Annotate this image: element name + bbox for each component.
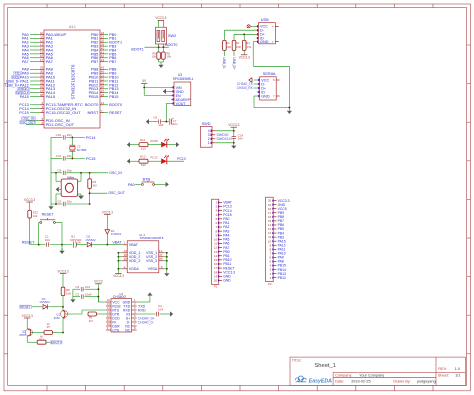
- svg-text:PB1: PB1: [109, 37, 116, 41]
- ground below SW2 resistors: [158, 59, 163, 68]
- svg-text:PA3: PA3: [223, 229, 229, 233]
- svg-text:12: 12: [268, 231, 272, 235]
- svg-text:PC15-OSC32_OUT: PC15-OSC32_OUT: [46, 110, 82, 115]
- svg-text:Y2: Y2: [77, 145, 81, 149]
- crystal Y1 8MHz: [56, 173, 81, 204]
- pin VSSA of U1.2: [148, 265, 168, 271]
- svg-text:Drawn By:: Drawn By:: [393, 379, 411, 383]
- capacitor C7 polarized: [166, 116, 178, 126]
- svg-text:15: 15: [40, 50, 44, 54]
- capacitor C4 at V3: [137, 304, 168, 316]
- svg-text:VSS_2: VSS_2: [146, 255, 157, 259]
- svg-text:C9: C9: [57, 200, 61, 204]
- pin VSS_2 of U1.2: [146, 253, 168, 259]
- svg-text:31: 31: [40, 73, 44, 77]
- svg-text:PB14: PB14: [278, 268, 286, 272]
- svg-text:104: 104: [238, 137, 243, 141]
- svg-text:39: 39: [101, 42, 105, 46]
- svg-text:USB_D+: USB_D+: [232, 57, 236, 70]
- svg-text:C3: C3: [75, 292, 79, 296]
- svg-text:17: 17: [214, 266, 218, 270]
- node Q2 base junction: [62, 332, 64, 334]
- resistor R2 USB D+ series: [232, 34, 257, 70]
- node BOOT1 label: [131, 47, 143, 51]
- svg-text:RXD: RXD: [12, 75, 19, 79]
- capacitor C11: [51, 154, 85, 161]
- svg-text:PD1-OSC_OUT: PD1-OSC_OUT: [46, 122, 75, 127]
- resistor R1 USB D- series: [222, 30, 256, 69]
- svg-text:19: 19: [101, 35, 105, 39]
- pin PC13-TAMPER-RTC of U1.1: [19, 101, 83, 107]
- svg-text:PA7: PA7: [22, 60, 29, 64]
- svg-text:DTR: DTR: [112, 312, 120, 316]
- pin VSS_1 of U1.2: [146, 249, 168, 255]
- svg-text:VBAT: VBAT: [112, 240, 122, 244]
- resistor R4 1.5k pullup: [239, 33, 252, 59]
- svg-text:18: 18: [268, 207, 272, 211]
- svg-text:VSSA: VSSA: [148, 267, 158, 271]
- svg-text:13: 13: [268, 227, 272, 231]
- svg-text:8050: 8050: [54, 316, 61, 320]
- node BOOT0 label: [165, 43, 177, 47]
- svg-text:10k: 10k: [151, 55, 156, 59]
- svg-text:10k: 10k: [33, 214, 38, 218]
- svg-text:PA8: PA8: [278, 260, 284, 264]
- svg-text:1N5822: 1N5822: [85, 238, 96, 242]
- svg-text:15: 15: [214, 258, 218, 262]
- pin BOOT0 of U1.1: [85, 101, 122, 107]
- capacitor C1: [45, 235, 73, 247]
- svg-text:PA6: PA6: [22, 56, 29, 60]
- svg-text:PB12: PB12: [109, 83, 118, 87]
- svg-text:PC13: PC13: [177, 157, 186, 161]
- svg-text:43: 43: [101, 58, 105, 62]
- pin PB1 of U1.1: [91, 35, 117, 41]
- svg-text:20: 20: [268, 199, 272, 203]
- netflag VCC5 at SERIAL VCC pin: [249, 78, 257, 83]
- svg-text:NRST: NRST: [88, 110, 99, 115]
- connector P1 20pin header: [212, 199, 236, 288]
- svg-text:48: 48: [124, 253, 128, 257]
- pin PB10 of U1.1: [89, 73, 119, 79]
- svg-text:BOOT0: BOOT0: [51, 340, 62, 344]
- svg-text:1: 1: [208, 141, 210, 145]
- svg-text:VCC3.3: VCC3.3: [223, 270, 235, 274]
- capacitor C14: [232, 131, 244, 143]
- svg-text:PC15: PC15: [19, 111, 29, 115]
- op-amp U2 CH340G: [106, 292, 137, 332]
- op-amp U1 power part U1.2: [127, 233, 164, 273]
- svg-text:PA5: PA5: [22, 52, 29, 56]
- svg-text:PB0: PB0: [109, 33, 116, 37]
- svg-text:12: 12: [214, 246, 218, 250]
- pin PB13 of U1.1: [89, 85, 119, 91]
- svg-text:PA1: PA1: [22, 37, 29, 41]
- pin VDDA of U1.2: [117, 265, 139, 271]
- resistor R6: [151, 47, 160, 59]
- LED D5: [161, 139, 169, 148]
- svg-text:22: 22: [101, 77, 105, 81]
- svg-text:45: 45: [101, 66, 105, 70]
- svg-text:RESET: RESET: [22, 241, 35, 245]
- wire right of LED D6 with net PC13: [167, 157, 186, 161]
- svg-text:VCC: VCC: [260, 25, 268, 29]
- svg-text:D+: D+: [261, 86, 267, 90]
- pin PB12 of U1.1: [89, 81, 119, 87]
- svg-text:13: 13: [214, 250, 218, 254]
- svg-text:4: 4: [208, 129, 210, 133]
- svg-text:PC15: PC15: [223, 213, 232, 217]
- svg-text:PB10: PB10: [109, 75, 118, 79]
- pin PD1-OSC_OUT of U1.1: [20, 120, 75, 127]
- svg-text:VCC: VCC: [112, 300, 120, 304]
- svg-text:15: 15: [268, 219, 272, 223]
- LED D6: [161, 155, 169, 164]
- capacitor C8: [51, 168, 108, 175]
- resistor R22: [28, 204, 39, 244]
- push button RESET: [38, 213, 63, 246]
- svg-text:PB9: PB9: [278, 211, 285, 215]
- svg-text:18: 18: [214, 270, 218, 274]
- pin VDD_3 of U1.2: [117, 257, 140, 263]
- pin VDD_1 of U1.2: [117, 249, 140, 255]
- svg-text:DSR: DSR: [112, 324, 120, 328]
- net label PC15 at C11: [86, 157, 96, 161]
- ground flag left of R12: [127, 159, 133, 164]
- svg-text:17: 17: [40, 58, 44, 62]
- net label SWDIO: [216, 133, 228, 137]
- pin PA14 of U1.1: [16, 89, 56, 95]
- svg-text:26: 26: [101, 85, 105, 89]
- svg-text:R232: R232: [112, 304, 120, 308]
- resistor R13: [37, 335, 50, 345]
- svg-text:PA11: PA11: [20, 79, 29, 83]
- svg-text:PA6: PA6: [223, 242, 229, 246]
- net label CH340_D-: [138, 320, 154, 324]
- push button BTN: [135, 178, 163, 186]
- resistor R8: [162, 47, 172, 59]
- wire Q2 collector to R13: [27, 336, 37, 342]
- svg-text:GND: GND: [123, 300, 131, 304]
- svg-text:104: 104: [45, 238, 50, 242]
- pin PA10 of U1.1: [12, 73, 56, 79]
- svg-text:PB13: PB13: [109, 87, 118, 91]
- svg-text:11: 11: [107, 318, 110, 322]
- svg-text:20p: 20p: [67, 133, 72, 137]
- svg-text:ADJ/BYP: ADJ/BYP: [176, 98, 192, 102]
- svg-text:SWDIO: SWDIO: [216, 133, 228, 137]
- svg-text:GND: GND: [260, 40, 269, 44]
- wire ground rail for crystal caps: [50, 137, 52, 203]
- pin PB5 of U1.1: [91, 50, 117, 56]
- svg-text:C11: C11: [56, 154, 62, 158]
- capacitor C3: [73, 292, 99, 298]
- pin PC14-OSC32_IN of U1.1: [19, 105, 76, 111]
- power flag VCC3.3 above D1: [102, 210, 113, 229]
- svg-text:PB4: PB4: [109, 48, 116, 52]
- pin PA5 of U1.1: [22, 50, 54, 56]
- svg-text:2A: 2A: [77, 241, 81, 245]
- pin VBAT of U1.2: [122, 241, 138, 247]
- svg-text:VIN: VIN: [176, 86, 182, 90]
- svg-text:SPX3819M5-L: SPX3819M5-L: [173, 77, 194, 81]
- svg-text:SWD: SWD: [202, 122, 211, 126]
- svg-text:RI: RI: [112, 320, 115, 324]
- svg-text:VDD_1: VDD_1: [129, 251, 141, 255]
- svg-text:PB4: PB4: [278, 231, 285, 235]
- svg-text:D+: D+: [126, 316, 130, 320]
- svg-text:16: 16: [268, 215, 272, 219]
- net label RXD: [138, 308, 146, 312]
- pin PB3 of U1.1: [91, 42, 117, 48]
- svg-text:BOOT0: BOOT0: [85, 102, 99, 107]
- svg-text:RTS: RTS: [112, 308, 119, 312]
- svg-text:PA10: PA10: [20, 75, 29, 79]
- pin PA2 of U1.1: [22, 39, 54, 45]
- svg-text:VCC3.3: VCC3.3: [57, 269, 68, 273]
- power flag VCC3.3 above Q2: [22, 314, 33, 329]
- svg-text:PC14: PC14: [19, 107, 29, 111]
- svg-text:2019-02-25: 2019-02-25: [351, 379, 370, 383]
- svg-text:PA15: PA15: [20, 95, 29, 99]
- resistor R3 1M: [88, 173, 97, 204]
- net label PC13 wire: [148, 156, 161, 162]
- svg-text:PC14: PC14: [223, 209, 232, 213]
- svg-text:47: 47: [159, 253, 163, 257]
- svg-text:41: 41: [101, 50, 105, 54]
- svg-text:CH340_TX: CH340_TX: [237, 82, 254, 86]
- diode D2 1N5822: [85, 235, 108, 248]
- transistor Q2 8550: [19, 328, 44, 337]
- svg-text:STM32F103C8T6: STM32F103C8T6: [140, 236, 164, 240]
- svg-text:Date:: Date:: [335, 379, 344, 383]
- svg-text:VDD_3: VDD_3: [129, 259, 141, 263]
- svg-text:C8: C8: [57, 168, 61, 172]
- svg-text:104: 104: [85, 285, 90, 289]
- svg-text:16: 16: [40, 54, 44, 58]
- svg-text:C6: C6: [153, 115, 157, 119]
- pin PB4 of U1.1: [91, 46, 117, 52]
- svg-text:VCC3.3: VCC3.3: [102, 210, 113, 214]
- svg-text:Company:: Company:: [335, 373, 352, 377]
- svg-text:12: 12: [40, 39, 44, 43]
- diode D3 1N5822: [32, 297, 64, 309]
- svg-text:OSC_IN: OSC_IN: [109, 171, 122, 175]
- svg-text:RESET: RESET: [109, 111, 122, 115]
- svg-text:VDD_2: VDD_2: [129, 255, 141, 259]
- svg-text:GND: GND: [176, 90, 184, 94]
- net label SWDCLK: [216, 137, 232, 141]
- svg-text:11: 11: [268, 235, 271, 239]
- svg-text:RESET: RESET: [223, 266, 234, 270]
- svg-text:DCD: DCD: [112, 316, 120, 320]
- pin PD0-OSC_IN of U1.1: [22, 116, 70, 123]
- svg-text:36: 36: [124, 257, 128, 261]
- transistor Q1 8050: [54, 307, 68, 333]
- svg-text:10: 10: [107, 322, 111, 326]
- resistor R5 on DTR: [88, 312, 106, 323]
- svg-text:PA3: PA3: [22, 44, 29, 48]
- svg-text:PC13: PC13: [19, 103, 29, 107]
- svg-text:USB_D-: USB_D-: [6, 79, 20, 83]
- svg-text:10: 10: [268, 239, 272, 243]
- svg-text:EN: EN: [176, 94, 181, 98]
- svg-text:510: 510: [141, 163, 146, 167]
- wire U3 VOUT down: [166, 103, 171, 121]
- svg-text:10: 10: [40, 31, 44, 35]
- resistor R7 1k: [44, 322, 63, 335]
- svg-text:P2: P2: [268, 282, 272, 286]
- net label PA0 at BTN: [128, 183, 135, 187]
- svg-text:104: 104: [158, 307, 163, 311]
- svg-text:PB15: PB15: [89, 94, 100, 99]
- pin PA0-WKUP of U1.1: [22, 31, 67, 37]
- pin PB9 of U1.1: [91, 70, 117, 76]
- capacitor C6: [151, 115, 167, 127]
- svg-text:510: 510: [141, 147, 146, 151]
- svg-text:GND: GND: [278, 203, 286, 207]
- svg-text:PA1: PA1: [223, 221, 229, 225]
- pin PA7 of U1.1: [22, 58, 54, 64]
- svg-text:C2: C2: [75, 285, 79, 289]
- svg-text:VCC3.3: VCC3.3: [228, 123, 239, 127]
- svg-text:11: 11: [40, 35, 43, 39]
- net label RESET at D3: [20, 305, 32, 309]
- svg-text:PB8: PB8: [109, 68, 116, 72]
- svg-text:NC: NC: [125, 328, 130, 332]
- pin PA6 of U1.1: [22, 54, 54, 60]
- svg-text:14: 14: [214, 254, 218, 258]
- svg-text:2: 2: [208, 137, 210, 141]
- power flag VCC3.3 above SW2: [155, 16, 166, 27]
- svg-text:VCC3.3: VCC3.3: [155, 16, 166, 20]
- svg-text:U3: U3: [178, 73, 182, 77]
- pin PA13 of U1.1: [18, 85, 56, 91]
- svg-text:1N5822: 1N5822: [39, 300, 50, 304]
- net label OSC_IN: [109, 171, 122, 175]
- svg-text:12: 12: [159, 249, 163, 253]
- ground right of C4: [168, 311, 174, 316]
- svg-text:10k: 10k: [66, 291, 71, 295]
- svg-text:42: 42: [101, 54, 105, 58]
- svg-text:PA15: PA15: [46, 94, 56, 99]
- svg-text:TITLE:: TITLE:: [292, 358, 302, 362]
- svg-text:PB8: PB8: [278, 215, 285, 219]
- wire RESET row: [30, 244, 46, 246]
- svg-text:8550: 8550: [19, 333, 26, 337]
- wire VBAT net: [107, 240, 122, 244]
- svg-text:14: 14: [107, 306, 111, 310]
- wire OSC_OUT: [90, 191, 125, 195]
- svg-text:PA4: PA4: [223, 233, 229, 237]
- pin PA15 of U1.1: [20, 93, 56, 99]
- wire VDD rail to VCC3.3: [113, 253, 124, 278]
- svg-text:OSC_OUT: OSC_OUT: [108, 191, 124, 195]
- svg-text:BOOT0: BOOT0: [165, 43, 177, 47]
- ground below SWD: [231, 143, 236, 149]
- svg-text:TXD: TXD: [14, 71, 21, 75]
- svg-text:PB7: PB7: [91, 59, 99, 64]
- pin PB2 of U1.1: [91, 39, 122, 45]
- connector P2 20pin header: [266, 197, 290, 286]
- svg-text:PA0: PA0: [128, 183, 135, 187]
- capacitor C10: [51, 133, 85, 140]
- svg-text:15: 15: [107, 302, 111, 306]
- svg-text:PA2: PA2: [223, 225, 229, 229]
- ground at U3 GND pin: [163, 89, 171, 94]
- svg-text:PB15: PB15: [109, 95, 118, 99]
- wire U2 GND up to ground: [137, 292, 153, 302]
- svg-text:104: 104: [158, 123, 163, 127]
- power flag 5V at U3 VIN: [141, 79, 147, 87]
- svg-text:BOOT1: BOOT1: [131, 47, 143, 51]
- EasyEDA logo: [295, 376, 332, 385]
- svg-text:37: 37: [40, 89, 44, 93]
- svg-text:PC15: PC15: [86, 157, 96, 161]
- ground right of LED D5: [167, 142, 179, 147]
- resistor R11: [132, 138, 148, 151]
- svg-text:PB0: PB0: [223, 250, 230, 254]
- svg-text:VSS_1: VSS_1: [146, 251, 157, 255]
- svg-text:RESET: RESET: [20, 305, 31, 309]
- svg-text:RESET: RESET: [42, 213, 55, 217]
- resistor R9 10k: [61, 287, 71, 307]
- svg-text:13: 13: [40, 42, 44, 46]
- pin VSS_3 of U1.2: [146, 257, 168, 263]
- net label PC14 at C10: [86, 136, 96, 140]
- svg-text:CTS: CTS: [112, 328, 120, 332]
- svg-text:USB: USB: [261, 18, 269, 22]
- power flag VCC3.3 above R22: [24, 198, 35, 205]
- svg-text:PA0: PA0: [223, 217, 229, 221]
- svg-text:BOOT1: BOOT1: [109, 41, 122, 45]
- svg-text:PB13: PB13: [278, 272, 286, 276]
- svg-text:SWDIO: SWDIO: [18, 87, 29, 91]
- svg-text:CH340_RX: CH340_RX: [237, 86, 254, 90]
- svg-text:ID: ID: [261, 90, 265, 94]
- connector USB: [256, 18, 278, 44]
- svg-text:PA12: PA12: [278, 243, 286, 247]
- svg-text:pudgeyang: pudgeyang: [417, 379, 436, 383]
- power flag VCC3.3 at SWD: [215, 123, 239, 132]
- wire SWD pin1 to ground: [215, 142, 235, 144]
- svg-text:19: 19: [214, 274, 218, 278]
- svg-text:34: 34: [40, 85, 44, 89]
- svg-text:1M: 1M: [92, 183, 97, 187]
- svg-text:PA11: PA11: [278, 247, 286, 251]
- svg-text:35: 35: [159, 257, 163, 261]
- svg-text:3: 3: [208, 133, 210, 137]
- svg-text:20: 20: [101, 39, 105, 43]
- svg-text:46: 46: [101, 70, 105, 74]
- wire SERIAL GND to ground: [254, 96, 290, 109]
- svg-text:CH340_D-: CH340_D-: [138, 320, 154, 324]
- ground flag left of R11: [127, 142, 133, 147]
- svg-text:PB14: PB14: [109, 91, 118, 95]
- net label RESET left: [22, 241, 35, 245]
- net label TXD: [138, 304, 146, 308]
- svg-text:OSC_IN: OSC_IN: [23, 116, 36, 120]
- svg-text:24: 24: [124, 249, 128, 253]
- svg-text:R12: R12: [140, 154, 146, 158]
- svg-text:PC13: PC13: [223, 205, 232, 209]
- svg-text:PA15: PA15: [278, 239, 286, 243]
- svg-text:PB6: PB6: [109, 56, 116, 60]
- svg-text:TXD: TXD: [123, 304, 130, 308]
- fuse B1 CRV520: [70, 235, 87, 248]
- ground left of C6: [146, 119, 152, 124]
- net label CH340_TX: [237, 82, 257, 86]
